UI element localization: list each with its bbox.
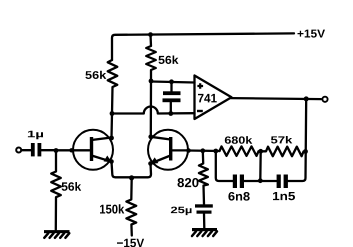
op-amp U1 741 <box>195 76 232 120</box>
node base wire / circle edge <box>69 148 73 152</box>
wire emitter rail <box>112 162 152 178</box>
label 25µ <box>171 207 192 216</box>
transistor Q2 (right, feedback) <box>148 130 188 170</box>
wire top supply rail <box>112 33 294 60</box>
label -15V supply <box>117 239 144 247</box>
wire input <box>22 149 32 151</box>
terminal output <box>322 97 327 102</box>
resistor 820 <box>199 151 208 205</box>
label 820 <box>178 178 199 187</box>
label 150k <box>100 204 124 213</box>
wire Q1 base <box>56 149 90 151</box>
node Q2 collector <box>148 134 153 139</box>
node compensation cap bottom <box>168 111 173 116</box>
node input/base <box>54 148 59 153</box>
label 56k (middle) <box>159 56 179 65</box>
label 56k (left) <box>85 71 106 79</box>
node Q2 base / circle edge <box>186 148 191 153</box>
wire mid node drop <box>259 151 262 180</box>
ground (under input 56k) <box>44 230 70 233</box>
wire output feedback vertical <box>288 99 307 181</box>
wire Q2 base to feedback network <box>189 149 220 152</box>
capacitor compensation (between op-amp inputs) <box>170 82 173 114</box>
wire lower branch middle segment <box>244 180 276 182</box>
node output junction <box>304 96 309 101</box>
wire cap to base node <box>41 149 56 151</box>
label 1n5 <box>273 192 295 200</box>
node Q1 emitter <box>109 159 114 164</box>
wire left vertical to Q1 collector <box>110 114 113 139</box>
label +15V supply <box>298 30 326 38</box>
label 56k (input bias) <box>62 182 82 191</box>
resistor 150k <box>126 178 136 236</box>
wire non-inverting input <box>151 82 195 83</box>
wire inverting input with hop over middle vertical <box>112 107 195 114</box>
node Q1 collector <box>109 136 114 141</box>
terminal input <box>16 148 21 153</box>
node + input branch <box>149 79 154 84</box>
node emitter rail center <box>129 175 134 180</box>
node 680k/57k mid <box>258 149 263 154</box>
node rail/56k junction <box>148 32 153 37</box>
node 57k right <box>303 149 308 154</box>
capacitor 1n5 <box>277 175 281 189</box>
node 820 branch <box>200 148 205 153</box>
ground (under 25µ) <box>192 228 217 231</box>
wire middle vertical to Q2 collector <box>150 81 152 137</box>
label 6n8 <box>228 192 249 201</box>
transistor Q1 (left, input) <box>73 130 113 170</box>
capacitor 6n8 <box>233 175 237 189</box>
wire Q2 base internal <box>173 149 189 151</box>
node Q2 emitter <box>148 161 153 166</box>
resistor 56k (middle, collector load Q2) <box>146 35 156 81</box>
capacitor 25µ <box>195 204 213 207</box>
resistor 56k (left, collector load Q1) <box>108 60 118 114</box>
node compensation cap top <box>169 79 174 84</box>
wire lower branch left segment <box>216 151 233 181</box>
node mid lower branch <box>258 178 263 183</box>
capacitor 1µ <box>31 143 35 156</box>
node 6n8 branch <box>213 149 218 154</box>
resistor 57k <box>261 147 306 157</box>
label 57k <box>271 136 292 144</box>
resistor 680k <box>220 146 261 156</box>
label 680k <box>225 136 253 144</box>
wire op-amp output <box>231 98 321 99</box>
node left vertical / inverting wire junction <box>110 111 115 116</box>
resistor 56k (input bias) <box>51 151 61 230</box>
label 1µ <box>28 131 43 140</box>
